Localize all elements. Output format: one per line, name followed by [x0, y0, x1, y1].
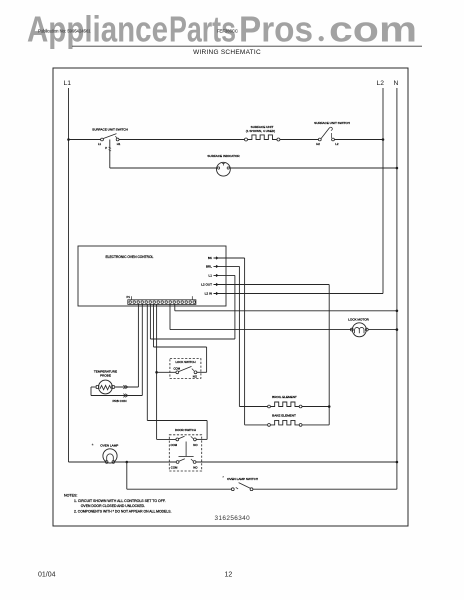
svg-text:OVEN LAMP: OVEN LAMP	[100, 444, 118, 448]
svg-text:COM: COM	[171, 466, 178, 470]
wire L1 rail to oven lamp	[69, 461, 106, 463]
junction broil to L2 OUT vertical	[328, 405, 331, 408]
wire bake element to L2 OUT net	[302, 424, 329, 426]
oven lamp switch	[231, 488, 234, 491]
junction EOC neutral to N	[396, 310, 399, 313]
junction L1 to surface unit switch	[67, 138, 70, 141]
surface unit switch S1	[101, 138, 104, 141]
wire lock motor to N rail	[368, 329, 397, 331]
svg-text:L1: L1	[209, 274, 213, 278]
svg-text:L2: L2	[377, 80, 385, 87]
svg-text:(1 SHOWN, 4 USED): (1 SHOWN, 4 USED)	[246, 129, 275, 133]
probe connector symbol bottom	[123, 394, 128, 398]
svg-text:FEF366CC: FEF366CC	[217, 29, 238, 34]
wire branch down to oven lamp switch	[126, 462, 128, 489]
lock motor	[350, 328, 353, 331]
wire oven lamp switch to N rail	[253, 488, 397, 490]
broil element	[268, 405, 271, 408]
junction surface circuit to L2	[382, 138, 385, 141]
surface unit heating element	[245, 138, 248, 141]
wire strip pin to lock switch NO loop	[153, 304, 155, 347]
wire surface indicator to N rail	[230, 167, 397, 169]
wire door switch lower NO to N rail	[196, 461, 397, 463]
wire BRL net horizontal to broil element	[239, 406, 267, 408]
L2 supply rail wire	[382, 88, 384, 294]
L1 supply rail wire	[68, 88, 70, 462]
junction indicator to N	[396, 167, 399, 170]
wire strip pin to lock switch COM and door switch COM	[156, 304, 158, 439]
svg-text:L2 OUT: L2 OUT	[201, 283, 212, 287]
svg-text:2. COMPONENTS WITH * DO NO: 2. COMPONENTS WITH * DO NOT APPEAR ON AL…	[74, 510, 171, 514]
svg-text:COM: COM	[174, 366, 181, 370]
svg-text:SURFACE UNIT SWITCH: SURFACE UNIT SWITCH	[92, 128, 128, 132]
svg-text:SURFACE INDICATOR: SURFACE INDICATOR	[207, 154, 240, 158]
wire switch P terminal drop to indicator row	[109, 140, 111, 169]
header rule	[72, 45, 422, 47]
svg-text:L2: L2	[335, 142, 339, 146]
svg-text:N: N	[394, 80, 399, 87]
wire strip pin to temperature probe (bottom)	[141, 304, 143, 395]
svg-text:BRL: BRL	[206, 265, 212, 269]
svg-text:L1: L1	[98, 142, 102, 146]
svg-text:12: 12	[225, 572, 233, 579]
wire strip pin to N rail	[174, 304, 176, 310]
svg-text:OVEN LAMP SWITCH: OVEN LAMP SWITCH	[227, 477, 258, 481]
wire BK net vertical to bake element	[244, 258, 246, 425]
svg-text:BAKE ELEMENT: BAKE ELEMENT	[272, 413, 296, 417]
svg-text:NOTES:: NOTES:	[64, 494, 77, 498]
wire BK net horizontal to bake element	[245, 424, 268, 426]
svg-text:H1: H1	[117, 142, 121, 146]
junction lamp line to N rail	[396, 461, 399, 464]
svg-text:H2: H2	[316, 142, 320, 146]
bake element	[268, 424, 271, 427]
svg-text:DOOR SWITCH: DOOR SWITCH	[175, 428, 196, 432]
svg-text:316256340: 316256340	[215, 515, 251, 522]
wire surface unit switch 2 to L2 rail	[335, 139, 384, 141]
wire BRL net vertical to broil element	[238, 266, 240, 406]
temperature probe sensor	[99, 380, 113, 394]
wire terminal strip pin drop to L1 feed	[149, 304, 151, 339]
svg-text:PROBE: PROBE	[100, 374, 111, 378]
wire L1 feed vertical	[234, 275, 236, 339]
junction lock motor to N	[396, 328, 399, 331]
door switch lower contacts	[176, 461, 179, 464]
svg-text:PRB CON: PRB CON	[112, 399, 126, 403]
lock switch contacts	[176, 371, 179, 374]
terminal strip P1 pins	[129, 301, 196, 304]
EOC terminal strip P1 outline	[128, 300, 196, 305]
electronic oven control module box	[78, 246, 226, 306]
lock switch dashed enclosure	[170, 359, 201, 379]
svg-text:ELECTRONIC OVEN CONTROL: ELECTRONIC OVEN CONTROL	[106, 255, 154, 259]
wire surface unit switch to surface unit element	[119, 139, 245, 141]
svg-text:P: P	[105, 146, 107, 150]
junction oven lamp branch	[126, 461, 129, 464]
svg-text:SURFACE UNIT SWITCH: SURFACE UNIT SWITCH	[314, 121, 350, 125]
svg-text:BROIL ELEMENT: BROIL ELEMENT	[272, 395, 297, 399]
svg-text:COM: COM	[171, 443, 178, 447]
svg-text:Publication No: 5995424561: Publication No: 5995424561	[38, 29, 91, 34]
probe connector symbol top	[123, 385, 128, 389]
svg-text:1. CIRCUIT SHOWN WITH ALL CO: 1. CIRCUIT SHOWN WITH ALL CONTROLS SET T…	[74, 499, 166, 503]
svg-text:*: *	[222, 475, 224, 480]
N neutral rail wire	[396, 88, 398, 489]
svg-text:WIRING SCHEMATIC: WIRING SCHEMATIC	[193, 49, 261, 56]
schematic border frame	[53, 68, 408, 526]
surface indicator lamp	[217, 162, 231, 176]
wire strip pin to door switch NO loop	[146, 304, 148, 420]
surface unit switch S2	[318, 138, 321, 141]
wire oven lamp to door switch lower COM	[115, 461, 177, 463]
svg-text:OVEN DOOR CLOSED AND UNLOCKED.: OVEN DOOR CLOSED AND UNLOCKED.	[81, 504, 145, 508]
watermark AppliancePartsPros.com	[27, 9, 417, 50]
svg-text:P1: P1	[127, 295, 131, 299]
svg-text:01/04: 01/04	[38, 572, 56, 579]
junction lock switch COM tee	[155, 371, 158, 374]
wire strip pin to temperature probe (top)	[137, 304, 139, 387]
wire L1 to surface unit switch	[69, 139, 102, 141]
wire strip pin to lock motor	[169, 304, 171, 329]
wire P terminal to surface indicator	[110, 167, 217, 169]
wire broil element to L2 OUT net	[302, 406, 329, 408]
svg-text:com: com	[329, 9, 417, 50]
svg-text:L2 IN: L2 IN	[205, 292, 212, 296]
door switch upper contacts	[176, 438, 179, 441]
wire L2 OUT vertical to elements	[328, 285, 330, 425]
oven lamp	[103, 449, 117, 463]
svg-text:LOCK SWITCH: LOCK SWITCH	[175, 360, 195, 364]
door switch mechanical link	[185, 442, 187, 457]
wire L1 feed horizontal to terminal strip pin	[150, 338, 235, 340]
wire surface unit element to surface unit switch 2	[280, 139, 319, 141]
svg-text:Pros: Pros	[239, 9, 313, 50]
svg-text:LOCK MOTOR: LOCK MOTOR	[348, 318, 370, 322]
wire lock switch COM stub	[157, 371, 176, 373]
svg-text:L1: L1	[64, 80, 72, 87]
door switch dashed enclosure	[169, 435, 201, 471]
